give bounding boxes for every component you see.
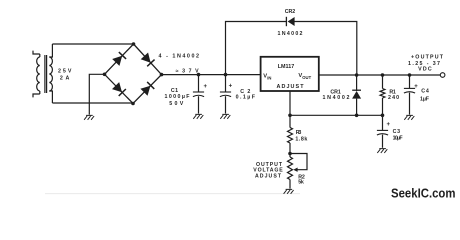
ground (C3) [377,149,387,153]
op-amp/regulator U1 LM117 [261,57,319,91]
potentiometer R2 5k [288,157,293,180]
svg-text:SeekIC.com: SeekIC.com [391,186,456,200]
capacitor C2 0.1uF [225,75,227,92]
transformer secondary winding [49,44,52,57]
capacitor C3 10uF [382,115,384,130]
node bridge left (-) [103,73,107,77]
bridge diode (lower-left to top, 1N4002) [112,52,126,66]
svg-text:VDC: VDC [418,66,432,72]
svg-text:1.8k: 1.8k [295,137,307,143]
diode CR2 1N4002 (points left) [285,17,287,26]
bridge diode (left to bottom, 1N4002) [112,82,126,96]
wire secondary bottom to bridge bottom corner [52,102,133,104]
ground (bridge negative) [84,115,94,119]
wire secondary top to bridge top corner [52,43,133,45]
svg-text:240: 240 [388,95,399,101]
svg-text:VOLTAGE: VOLTAGE [253,168,283,174]
node bridge bottom (AC) [131,102,135,106]
svg-text:ADJUST: ADJUST [277,84,305,90]
svg-text:C3: C3 [393,129,401,135]
svg-text:+: + [204,84,208,90]
R2 wiper loop wire [290,154,307,170]
diode CR1 1N4002 (points up) [356,75,358,91]
svg-text:1µF: 1µF [420,97,430,103]
svg-text:C1: C1 [171,88,178,94]
svg-text:+: + [414,84,418,90]
svg-text:+OUTPUT: +OUTPUT [411,54,444,60]
wire bridge left corner to ground [89,74,104,114]
svg-text:C4: C4 [421,88,429,94]
output terminal [440,73,445,78]
faint scan artifact line [45,193,300,195]
svg-text:CR2: CR2 [285,9,296,15]
bridge diode (bottom to right, 1N4002) [140,82,154,96]
svg-text:2A: 2A [60,75,70,81]
transformer primary winding [39,54,41,57]
resistor R3 1.8k [289,115,291,127]
wire ADJUST pin down [289,91,291,115]
svg-text:OUT: OUT [302,75,311,80]
node bridge right (+37V) [160,73,164,77]
transformer primary lead (bottom stub) [33,94,40,97]
transformer primary lead (top stub) [33,51,40,54]
wire CR2 to output rail [294,22,356,76]
bridge diode (top to right, 1N4002) [141,53,155,67]
capacitor C1 1000uF 50V [198,75,200,92]
svg-text:+: + [229,84,233,90]
wire top branch up from +37V rail [226,22,287,75]
ground (C4) [404,115,414,119]
wire ADJ rail [290,114,383,116]
svg-text:10µF: 10µF [393,135,404,141]
ground (R2) [284,189,294,193]
transformer core [45,55,47,93]
svg-text:LM117: LM117 [278,64,295,70]
svg-text:R3: R3 [296,130,302,136]
ground (C1) [193,114,203,118]
resistor R1 240 [382,75,384,89]
node R3/R2 junction [288,152,292,156]
node bridge top (AC) [132,42,136,46]
svg-text:ADJUST: ADJUST [255,174,282,180]
capacitor C4 1uF [409,75,411,88]
wire +37V rail: bridge to LM117 VIN [162,74,261,76]
ground (C2) [220,114,230,118]
wire output rail: VOUT to terminal [319,74,440,76]
svg-text:+: + [386,122,390,128]
svg-text:25V: 25V [58,68,72,74]
bridge diamond wires [105,44,162,104]
svg-text:IN: IN [267,75,271,80]
svg-text:1000µF: 1000µF [165,94,191,100]
svg-text:5k: 5k [298,180,304,186]
svg-text:50V: 50V [169,101,184,107]
